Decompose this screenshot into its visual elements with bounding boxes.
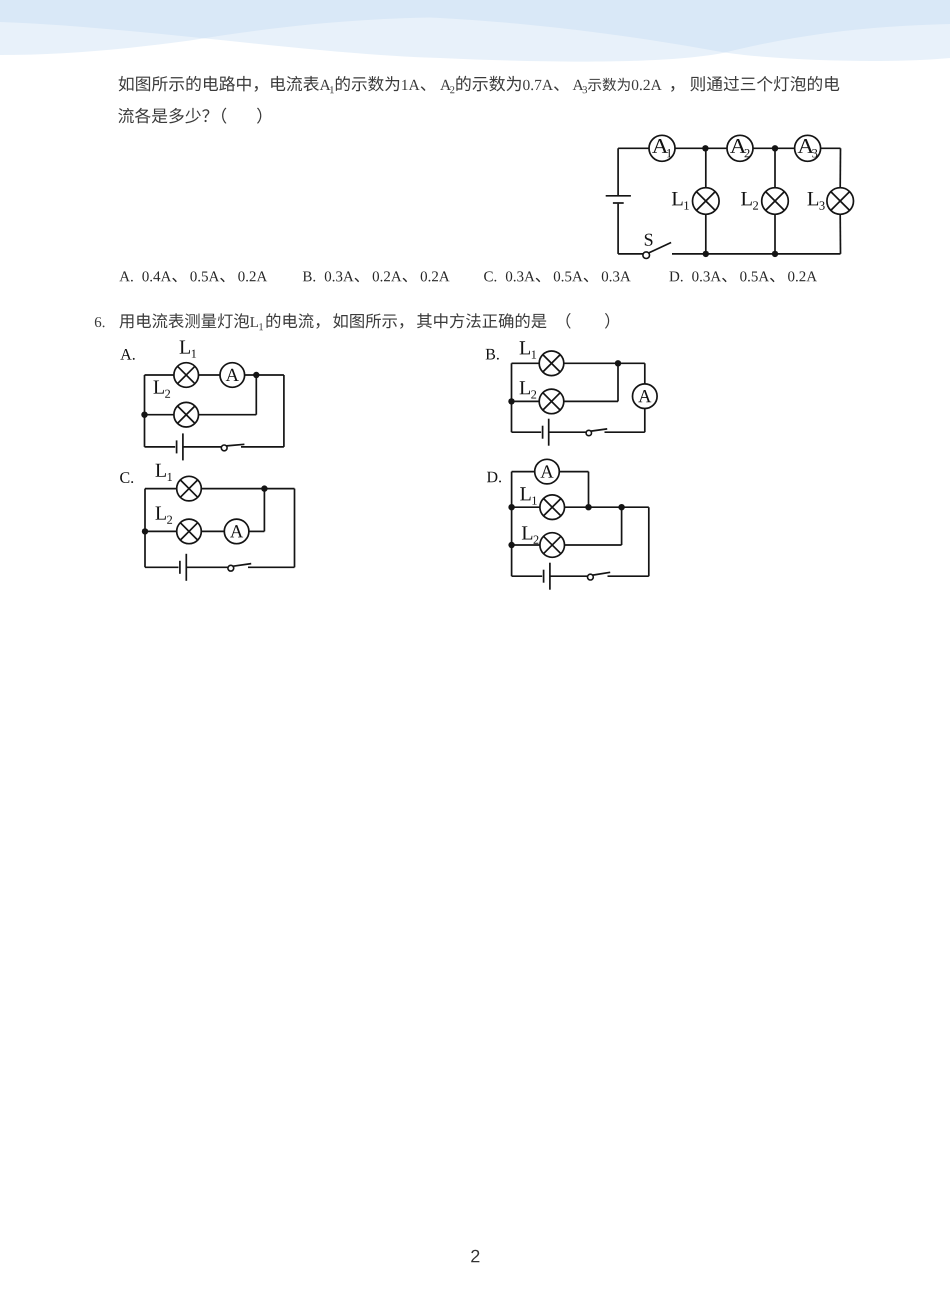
wire L2 branch vertical (621, 507, 623, 545)
label L2 (522, 526, 539, 543)
option B values (303, 271, 450, 282)
wire right vertical lower (644, 409, 646, 433)
wire L1 branch upper (705, 148, 707, 187)
battery cell (544, 563, 550, 590)
wire left vertical (144, 375, 146, 447)
lamp L2 (540, 533, 565, 558)
node junction dot bottom rail L2 branch (772, 251, 778, 257)
lamp L1 (177, 476, 202, 501)
ammeter A (224, 519, 249, 544)
label L1 (180, 341, 197, 358)
wire middle rail right (564, 400, 618, 402)
wire ammeter to top right corner (245, 374, 284, 376)
wire bottom rail to switch (618, 253, 643, 255)
battery cell (606, 196, 631, 203)
lamp L1 (693, 188, 720, 215)
wire left vertical above battery (617, 148, 619, 196)
node junction dot middle left (141, 412, 147, 418)
wire top rail right (201, 488, 294, 490)
lamp L2 (177, 519, 202, 544)
wire bottom rail from switch to right corner (672, 253, 841, 255)
circuit C: wire top rail left (145, 488, 177, 490)
option letter C (120, 472, 133, 483)
wire left vertical below battery (617, 204, 619, 254)
wire switch to bottom right corner (241, 446, 284, 448)
wire right vertical (294, 489, 296, 568)
node junction dot L2 branch (618, 504, 624, 510)
wire branch vertical to top rail (263, 489, 265, 532)
label L1 (155, 464, 172, 481)
wire right vertical upper (644, 363, 646, 384)
wire left vertical (511, 363, 513, 432)
wire left vertical (144, 489, 146, 568)
wire bottom rail left (512, 431, 542, 433)
label L2 (741, 192, 758, 210)
node junction dot top rail L1 branch (702, 145, 708, 151)
question 5 text line 1 (119, 76, 840, 94)
circuit A: wire top rail left (145, 374, 174, 376)
node junction dot bottom rail L1 branch (703, 251, 709, 257)
lamp L1 (540, 495, 565, 520)
switch (228, 564, 251, 572)
switch (588, 572, 611, 580)
wire right vertical (283, 375, 285, 447)
label L1 (520, 487, 537, 504)
node junction dot L2 row left (508, 542, 514, 548)
label L3 (807, 192, 824, 210)
ammeter A (535, 459, 560, 484)
switch S symbol (643, 243, 671, 259)
wire battery to switch (183, 446, 222, 448)
wire middle rail left (145, 530, 177, 532)
question 5 text line 2 (118, 108, 261, 124)
option C values (484, 271, 631, 282)
node junction dot top rail (253, 372, 259, 378)
option letter A (120, 349, 134, 360)
wire right vertical (648, 507, 650, 576)
wire switch to bottom right corner (605, 431, 645, 433)
node junction dot middle left (142, 528, 148, 534)
wire L2 branch upper (774, 148, 776, 187)
page number 2 (471, 1250, 479, 1263)
wire L2 row right (565, 544, 622, 546)
wire A3 to top right corner (821, 147, 841, 149)
circuit D: wire ammeter row left (512, 471, 535, 473)
node junction dot middle left (508, 398, 514, 404)
wire bottom rail left (512, 575, 543, 577)
wire L1 to ammeter (199, 374, 221, 376)
option D values (669, 271, 817, 282)
wire ammeter row right (559, 471, 588, 473)
switch (221, 444, 244, 451)
node junction dot top rail (615, 360, 621, 366)
wire L1 row left (512, 506, 541, 508)
ammeter A2 (727, 135, 753, 161)
lamp L1 (174, 363, 199, 388)
wire battery to switch (186, 566, 228, 568)
wire L2 to ammeter (201, 530, 224, 532)
wire battery to switch (549, 431, 587, 433)
node junction dot ammeter branch (585, 504, 591, 510)
wire ammeter branch vertical (588, 472, 590, 508)
battery cell (177, 433, 183, 460)
ammeter A3 (795, 135, 821, 161)
option letter D (487, 472, 501, 483)
label S (645, 234, 653, 246)
wire branch vertical to top rail (617, 363, 619, 401)
lamp L2 (762, 188, 789, 215)
ammeter A (220, 363, 245, 388)
ammeter A (633, 384, 658, 409)
wire top rail right (564, 362, 645, 364)
ammeter A1 (649, 135, 675, 161)
wire bottom rail left (145, 566, 179, 568)
lamp L3 (827, 188, 854, 215)
battery cell (180, 554, 186, 581)
wire left vertical (511, 472, 513, 577)
wire branch vertical right of L2 (255, 375, 257, 415)
wire bottom rail left (145, 446, 176, 448)
wire switch to bottom right corner (608, 575, 649, 577)
label L2 (153, 381, 170, 398)
wire ammeter to branch corner (249, 530, 265, 532)
wire L2 row left (512, 544, 541, 546)
node junction dot L1 row left (508, 504, 514, 510)
wire middle rail right (199, 414, 257, 416)
option letter B (486, 349, 499, 360)
node junction dot top rail (261, 485, 267, 491)
circuit B: wire top rail left (512, 362, 540, 364)
node junction dot top rail L2 branch (772, 145, 778, 151)
label L1 (520, 341, 537, 358)
wire A1 to A2 (675, 147, 727, 149)
wire right vertical lower (839, 214, 841, 254)
battery cell (543, 419, 549, 446)
circuit 1: wire top rail segment battery to A1 (618, 147, 649, 149)
wire right vertical upper (839, 148, 841, 187)
decorative header wave background (0, 0, 950, 62)
lamp L1 (539, 351, 564, 376)
lamp L2 (539, 389, 564, 414)
option A values (119, 271, 267, 282)
wire middle rail left (145, 414, 174, 416)
wire battery to switch (550, 575, 588, 577)
switch (586, 429, 607, 436)
label L1 (672, 192, 689, 210)
question 6 stem text (95, 313, 609, 330)
wire middle rail left (512, 400, 540, 402)
wire L1 row right (565, 506, 649, 508)
label L2 (155, 507, 172, 524)
wire A2 to A3 (753, 147, 795, 149)
wire switch to bottom right corner (248, 566, 295, 568)
label L2 (520, 381, 537, 398)
wire L2 branch lower (774, 214, 776, 254)
lamp L2 (174, 402, 199, 427)
wire L1 branch lower (705, 214, 707, 254)
